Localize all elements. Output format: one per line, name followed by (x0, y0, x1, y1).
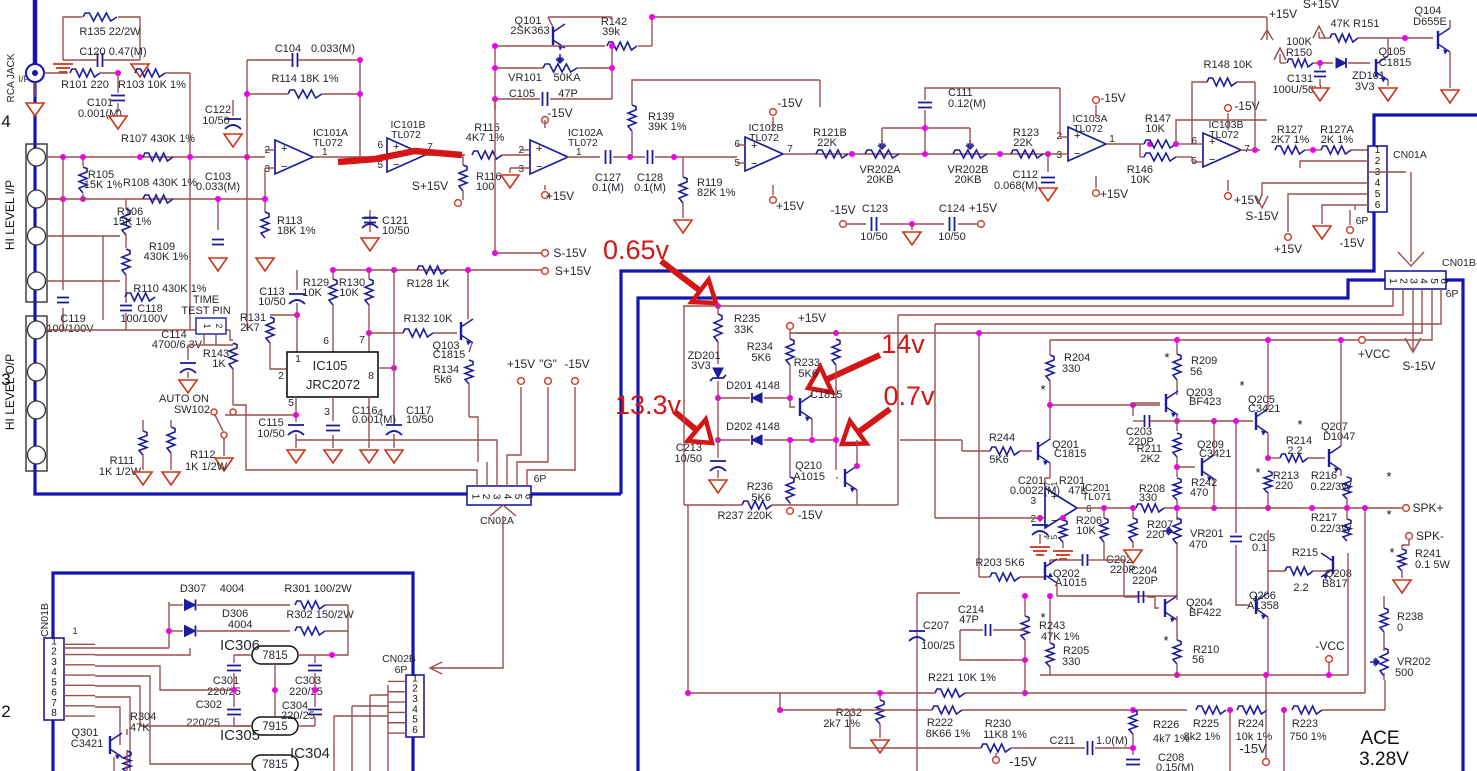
svg-text:TL072: TL072 (1073, 123, 1103, 135)
svg-text:10/50: 10/50 (257, 428, 285, 440)
svg-text:220/25: 220/25 (281, 710, 315, 722)
svg-text:6: 6 (377, 140, 383, 151)
svg-text:220: 220 (1275, 480, 1293, 492)
svg-text:SPK-: SPK- (1416, 529, 1444, 543)
svg-text:IC305: IC305 (220, 727, 260, 744)
svg-text:330: 330 (1062, 363, 1080, 375)
svg-text:-15V: -15V (1339, 236, 1364, 250)
svg-text:R114 18K 1%: R114 18K 1% (271, 73, 338, 85)
svg-text:TL072: TL072 (568, 137, 598, 149)
svg-text:-15V: -15V (830, 203, 855, 217)
svg-text:BF423: BF423 (1189, 396, 1221, 408)
svg-text:VR101: VR101 (508, 72, 542, 84)
svg-text:1: 1 (202, 323, 212, 328)
svg-text:S-15V: S-15V (1245, 209, 1278, 223)
svg-text:1.0(M): 1.0(M) (1096, 735, 1128, 747)
svg-text:D202 4148: D202 4148 (726, 421, 780, 433)
svg-text:0.22/3W: 0.22/3W (1311, 481, 1353, 493)
svg-text:+15V: +15V (776, 199, 804, 213)
svg-text:5: 5 (288, 397, 294, 409)
svg-text:CN01B: CN01B (39, 603, 51, 637)
svg-text:R301 100/2W: R301 100/2W (284, 583, 352, 595)
svg-text:D307: D307 (180, 583, 206, 595)
svg-text:430K 1%: 430K 1% (144, 251, 189, 263)
svg-text:5: 5 (512, 494, 523, 500)
svg-text:100/25: 100/25 (921, 640, 955, 652)
svg-text:C1815: C1815 (1054, 448, 1086, 460)
svg-text:R128 1K: R128 1K (407, 278, 450, 290)
svg-text:47K: 47K (1068, 485, 1088, 497)
svg-text:C302: C302 (196, 699, 222, 711)
svg-text:−: − (1209, 154, 1215, 166)
svg-text:2K7 1%: 2K7 1% (1271, 134, 1310, 146)
svg-text:3: 3 (1056, 150, 1062, 161)
svg-text:13.3v: 13.3v (615, 390, 682, 420)
svg-text:22K: 22K (1013, 137, 1033, 149)
svg-text:S-15V: S-15V (553, 246, 586, 260)
svg-text:R132 10K: R132 10K (404, 313, 454, 325)
svg-text:S+15V: S+15V (555, 264, 591, 278)
svg-text:2: 2 (1375, 156, 1381, 167)
svg-text:−: − (751, 158, 757, 170)
svg-text:SW102: SW102 (174, 404, 210, 416)
svg-text:10K: 10K (1076, 525, 1096, 537)
svg-text:220: 220 (1146, 529, 1164, 541)
svg-text:TEST PIN: TEST PIN (181, 305, 230, 317)
svg-text:6: 6 (1086, 504, 1092, 515)
svg-text:6: 6 (1191, 136, 1197, 147)
svg-text:7815: 7815 (262, 759, 288, 771)
svg-text:4: 4 (1375, 178, 1381, 189)
svg-text:−: − (1051, 515, 1057, 527)
svg-text:4: 4 (501, 494, 512, 500)
svg-text:C1815: C1815 (433, 349, 465, 361)
svg-text:5: 5 (1428, 278, 1439, 284)
svg-text:A1015: A1015 (1055, 577, 1087, 589)
svg-text:3: 3 (491, 494, 502, 500)
svg-text:D1047: D1047 (1323, 431, 1355, 443)
svg-text:+15V: +15V (1274, 242, 1302, 256)
svg-text:3: 3 (324, 406, 330, 418)
svg-text:R101 220: R101 220 (61, 79, 109, 91)
svg-text:47K: 47K (130, 722, 150, 734)
svg-text:2SK363: 2SK363 (510, 25, 549, 37)
svg-text:C211: C211 (1050, 735, 1075, 747)
svg-text:−: − (1074, 148, 1080, 160)
svg-text:−: − (536, 161, 542, 173)
svg-text:2: 2 (278, 370, 284, 382)
svg-text:-15V: -15V (547, 106, 572, 120)
svg-text:-15V: -15V (564, 357, 589, 371)
svg-text:R221 10K 1%: R221 10K 1% (928, 672, 996, 684)
svg-text:IC304: IC304 (290, 745, 330, 762)
svg-text:*: * (1386, 469, 1391, 484)
svg-text:C120 0.47(M): C120 0.47(M) (79, 46, 146, 58)
svg-text:3: 3 (1030, 496, 1036, 507)
svg-text:+VCC: +VCC (1358, 347, 1391, 361)
svg-text:*: * (1164, 350, 1169, 365)
svg-text:6P: 6P (534, 473, 547, 485)
svg-text:5k6: 5k6 (434, 374, 452, 386)
svg-text:0.7v: 0.7v (883, 381, 935, 411)
svg-text:C3421: C3421 (1248, 403, 1280, 415)
svg-text:*: * (1389, 545, 1394, 560)
svg-text:10K: 10K (1145, 123, 1165, 135)
svg-text:R224: R224 (1238, 718, 1264, 730)
svg-text:-15V: -15V (777, 96, 802, 110)
svg-text:*: * (1255, 465, 1260, 480)
svg-text:5K6: 5K6 (751, 352, 771, 364)
svg-text:R108 430K 1%: R108 430K 1% (123, 177, 197, 189)
svg-text:5: 5 (377, 160, 383, 171)
svg-text:0.033(M): 0.033(M) (311, 43, 355, 55)
svg-text:0.1(M): 0.1(M) (592, 182, 624, 194)
svg-text:C1815: C1815 (1379, 57, 1411, 69)
svg-text:5: 5 (1375, 189, 1381, 200)
svg-text:47P: 47P (959, 614, 979, 626)
svg-text:S-15V: S-15V (1402, 359, 1435, 373)
svg-text:0.1 5W: 0.1 5W (1415, 559, 1450, 571)
svg-text:IC105: IC105 (313, 358, 348, 373)
svg-text:0.65v: 0.65v (603, 235, 670, 265)
svg-text:C123: C123 (862, 203, 888, 215)
svg-text:1: 1 (1387, 278, 1398, 284)
svg-text:R302 150/2W: R302 150/2W (286, 609, 354, 621)
svg-text:47P: 47P (558, 88, 578, 100)
svg-text:0.15(M): 0.15(M) (1156, 762, 1194, 771)
svg-text:TL072: TL072 (1209, 129, 1239, 141)
svg-text:2.2: 2.2 (1287, 445, 1302, 457)
svg-text:1K 1/2W: 1K 1/2W (185, 461, 228, 473)
svg-text:330: 330 (1139, 492, 1157, 504)
svg-text:S+15V: S+15V (1303, 0, 1339, 11)
svg-text:470: 470 (1189, 539, 1207, 551)
svg-text:56: 56 (1190, 366, 1202, 378)
svg-text:82K 1%: 82K 1% (697, 187, 736, 199)
svg-text:TL072: TL072 (313, 137, 343, 149)
svg-text:*: * (1239, 378, 1244, 393)
svg-text:0.0022(M): 0.0022(M) (1010, 485, 1060, 497)
svg-text:-15V: -15V (1239, 741, 1267, 756)
svg-text:RCA JACK: RCA JACK (6, 53, 17, 102)
svg-text:47K 1%: 47K 1% (1041, 631, 1080, 643)
svg-text:-15V: -15V (797, 508, 822, 522)
svg-text:-15V: -15V (1100, 91, 1125, 105)
svg-text:0: 0 (1397, 622, 1403, 634)
svg-text:100: 100 (476, 181, 494, 193)
svg-text:15K 1%: 15K 1% (84, 179, 123, 191)
svg-text:20KB: 20KB (955, 174, 982, 186)
svg-text:SPK+: SPK+ (1412, 501, 1443, 515)
svg-text:1: 1 (72, 626, 77, 636)
svg-text:220/25: 220/25 (289, 686, 323, 698)
svg-text:C1815: C1815 (810, 389, 842, 401)
svg-text:C105: C105 (509, 88, 535, 100)
svg-text:IC306: IC306 (220, 637, 260, 654)
svg-text:6P: 6P (1356, 215, 1369, 227)
svg-text:6: 6 (412, 725, 418, 736)
svg-text:R223: R223 (1292, 718, 1318, 730)
svg-text:C207: C207 (923, 620, 949, 632)
svg-text:10K: 10K (339, 287, 359, 299)
svg-text:10/50: 10/50 (674, 453, 702, 465)
svg-text:2: 2 (1030, 514, 1036, 525)
svg-text:5K6: 5K6 (798, 368, 818, 380)
svg-text:4004: 4004 (220, 583, 244, 595)
svg-text:220P: 220P (1132, 575, 1158, 587)
svg-text:C3421: C3421 (71, 738, 103, 750)
svg-text:R244: R244 (989, 432, 1015, 444)
svg-text:7815: 7815 (262, 650, 288, 662)
svg-text:2K2: 2K2 (1140, 453, 1160, 465)
svg-text:11K8 1%: 11K8 1% (983, 729, 1027, 741)
svg-text:10/50: 10/50 (406, 414, 434, 426)
svg-text:7: 7 (359, 334, 365, 346)
svg-text:18K 1%: 18K 1% (277, 225, 316, 237)
svg-text:R112: R112 (190, 449, 215, 461)
svg-text:8k2 1%: 8k2 1% (1184, 731, 1221, 743)
svg-text:750 1%: 750 1% (1289, 731, 1327, 743)
svg-text:220/25: 220/25 (186, 717, 220, 729)
svg-text:C3421: C3421 (1199, 448, 1231, 460)
svg-text:2: 2 (1, 702, 10, 721)
svg-text:4: 4 (1, 112, 10, 131)
svg-text:D655E: D655E (1413, 16, 1447, 28)
svg-text:R150: R150 (1286, 47, 1312, 59)
svg-text:+15V: +15V (1269, 7, 1297, 21)
svg-text:*: * (1386, 507, 1391, 522)
svg-text:1: 1 (469, 494, 480, 500)
svg-text:TL072: TL072 (749, 132, 779, 144)
svg-text:5K6: 5K6 (989, 454, 1009, 466)
svg-text:+15V: +15V (1100, 187, 1128, 201)
svg-text:TL072: TL072 (391, 129, 421, 141)
svg-text:JRC2072: JRC2072 (306, 377, 360, 392)
svg-text:+15V: +15V (969, 201, 997, 215)
svg-text:+: + (281, 143, 287, 155)
svg-text:0.1(M): 0.1(M) (634, 182, 666, 194)
svg-text:ACE: ACE (1360, 728, 1399, 749)
svg-text:2K 1%: 2K 1% (1321, 134, 1354, 146)
svg-text:20KB: 20KB (867, 174, 894, 186)
svg-text:CN02A: CN02A (480, 515, 514, 527)
svg-text:6: 6 (323, 335, 329, 347)
svg-text:330: 330 (1062, 656, 1080, 668)
svg-text:HI LEVEL I/P: HI LEVEL I/P (3, 180, 17, 250)
svg-text:BF422: BF422 (1189, 607, 1221, 619)
svg-text:CN01B: CN01B (1442, 257, 1476, 269)
svg-text:*: * (1163, 633, 1168, 648)
svg-text:22K: 22K (817, 137, 837, 149)
svg-text:2.2: 2.2 (1293, 582, 1308, 594)
svg-text:8: 8 (51, 708, 57, 719)
svg-text:6: 6 (1438, 278, 1449, 284)
svg-text:R107 430K 1%: R107 430K 1% (121, 133, 195, 145)
svg-text:+: + (536, 143, 542, 155)
svg-text:6: 6 (523, 494, 534, 500)
svg-text:C124: C124 (939, 203, 965, 215)
svg-text:R226: R226 (1153, 719, 1179, 731)
svg-text:+15V: +15V (546, 189, 574, 203)
svg-text:56: 56 (1192, 654, 1204, 666)
svg-text:-15V: -15V (1234, 99, 1259, 113)
svg-text:2: 2 (214, 323, 224, 328)
svg-text:47K R151: 47K R151 (1331, 18, 1380, 30)
svg-text:7915: 7915 (262, 721, 288, 733)
svg-text:2k7 1%: 2k7 1% (823, 718, 860, 730)
svg-text:0.068(M): 0.068(M) (994, 180, 1038, 192)
svg-text:R148 10K: R148 10K (1204, 59, 1254, 71)
svg-text:R135 22/2W: R135 22/2W (79, 26, 141, 38)
svg-text:R103 10K 1%: R103 10K 1% (118, 79, 186, 91)
svg-text:*: * (1297, 417, 1302, 432)
svg-text:10K: 10K (302, 287, 322, 299)
svg-text:-15V: -15V (1009, 754, 1037, 769)
svg-text:"G": "G" (539, 357, 557, 371)
svg-text:470: 470 (1190, 487, 1208, 499)
svg-text:15K 1%: 15K 1% (113, 216, 152, 228)
svg-text:3.28V: 3.28V (1359, 749, 1409, 770)
svg-text:3: 3 (1407, 278, 1418, 284)
svg-text:4: 4 (1418, 278, 1429, 284)
svg-text:+15V: +15V (507, 357, 535, 371)
svg-text:8: 8 (368, 370, 374, 382)
svg-text:R225: R225 (1193, 718, 1219, 730)
svg-text:500: 500 (1395, 667, 1413, 679)
svg-text:D201 4148: D201 4148 (726, 380, 780, 392)
svg-text:10/50: 10/50 (382, 225, 410, 237)
svg-text:−: − (281, 161, 287, 173)
svg-text:*: * (1040, 382, 1045, 397)
svg-text:-VCC: -VCC (1315, 639, 1345, 653)
svg-text:100/100V: 100/100V (46, 323, 94, 335)
svg-text:R237 220K: R237 220K (717, 510, 773, 522)
svg-text:S+15V: S+15V (412, 179, 448, 193)
svg-text:2: 2 (480, 494, 491, 500)
svg-text:6P: 6P (1446, 288, 1459, 300)
svg-text:A1358: A1358 (1247, 600, 1279, 612)
svg-text:10/50: 10/50 (938, 231, 966, 243)
svg-text:39K 1%: 39K 1% (648, 121, 687, 133)
svg-text:CN01A: CN01A (1393, 149, 1427, 161)
svg-text:10K: 10K (1130, 174, 1150, 186)
svg-text:39k: 39k (602, 26, 620, 38)
svg-text:50KA: 50KA (554, 72, 582, 84)
svg-text:4004: 4004 (228, 619, 252, 631)
svg-text:A1015: A1015 (793, 471, 825, 483)
svg-text:1: 1 (1375, 145, 1381, 156)
svg-text:3V3: 3V3 (691, 360, 711, 372)
svg-text:0.12(M): 0.12(M) (948, 98, 986, 110)
svg-text:1: 1 (295, 353, 301, 365)
svg-text:R203 5K6: R203 5K6 (976, 557, 1025, 569)
svg-text:5: 5 (1050, 534, 1059, 539)
svg-text:+15V: +15V (798, 311, 826, 325)
svg-text:0.1: 0.1 (1252, 542, 1267, 554)
svg-text:3: 3 (518, 164, 524, 175)
svg-text:HI LEVEL O/P: HI LEVEL O/P (3, 354, 17, 430)
svg-text:B817: B817 (1322, 578, 1348, 590)
svg-text:3V3: 3V3 (1355, 81, 1375, 93)
svg-text:10/50: 10/50 (860, 231, 888, 243)
svg-text:2K7: 2K7 (240, 322, 260, 334)
svg-text:−: − (393, 159, 399, 171)
svg-text:100/100V: 100/100V (120, 313, 168, 325)
svg-text:4K7 1%: 4K7 1% (466, 132, 505, 144)
svg-text:0.033(M): 0.033(M) (196, 181, 240, 193)
svg-text:R215: R215 (1292, 547, 1318, 559)
svg-text:6: 6 (1375, 200, 1381, 211)
svg-text:1K: 1K (212, 358, 226, 370)
svg-text:6P: 6P (395, 664, 408, 676)
svg-text:C104: C104 (275, 43, 301, 55)
svg-text:0.22/3W: 0.22/3W (1311, 523, 1353, 535)
svg-text:10/50: 10/50 (258, 296, 286, 308)
svg-text:10/50: 10/50 (202, 115, 230, 127)
svg-text:33K: 33K (734, 324, 754, 336)
svg-text:2: 2 (1397, 278, 1408, 284)
svg-text:8K66 1%: 8K66 1% (926, 728, 971, 740)
